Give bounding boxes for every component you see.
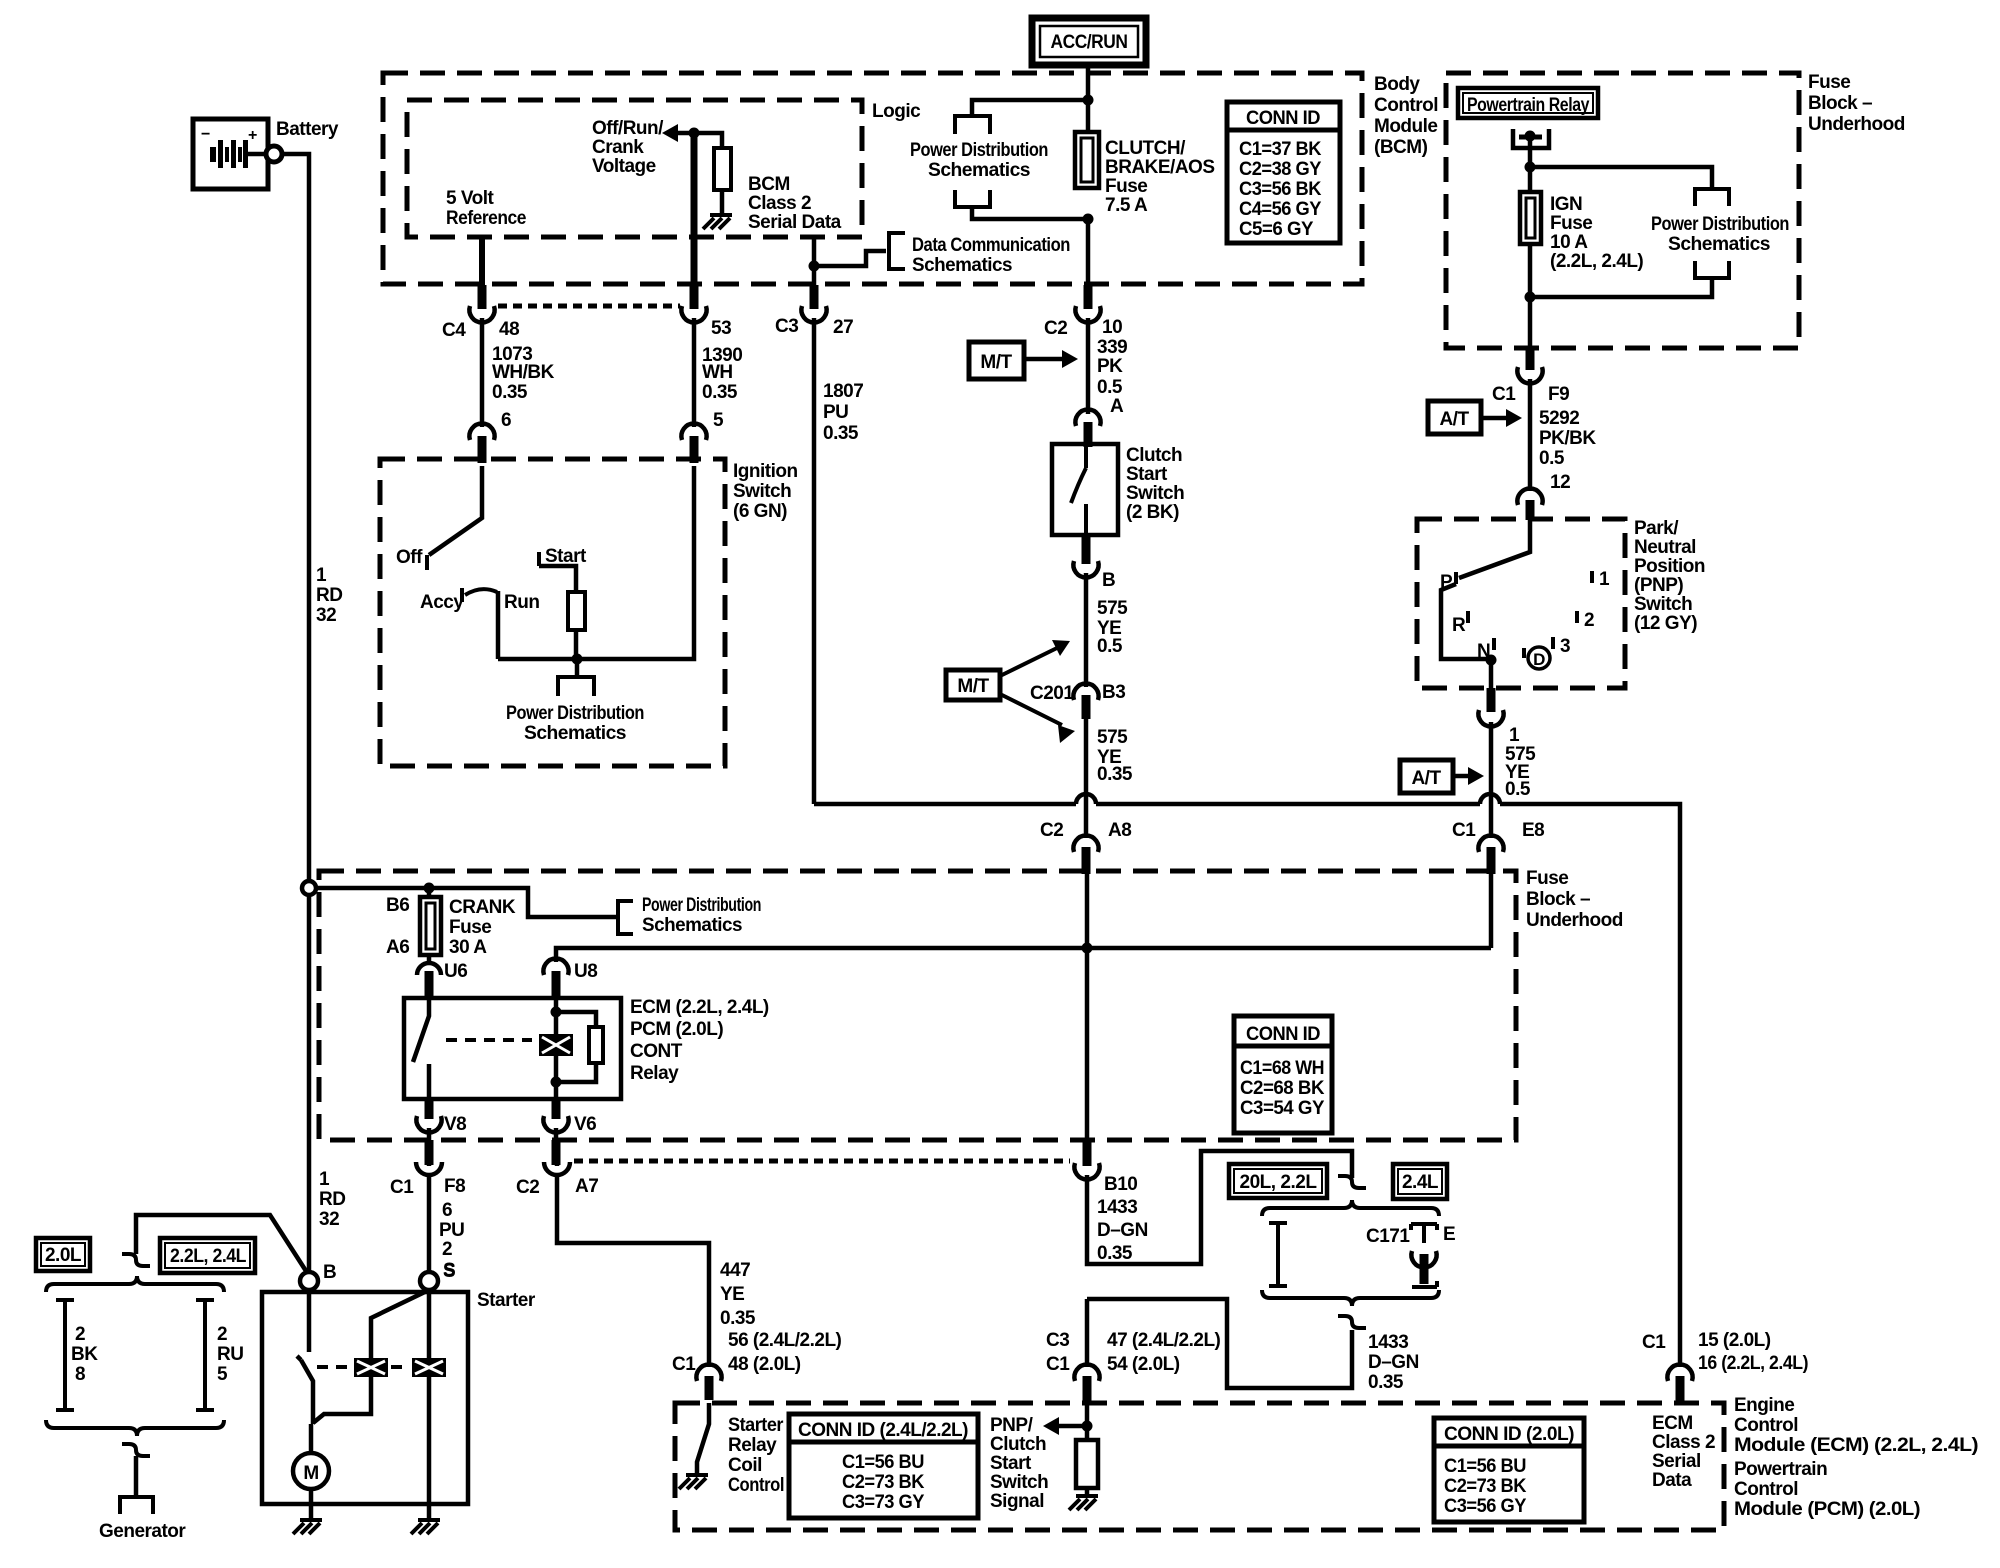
wire to PDS ref (IGN) — [1530, 167, 1712, 189]
connector C4 cavity 48 — [469, 306, 494, 322]
svg-text:D–GN: D–GN — [1368, 1352, 1419, 1373]
connector 12 (PNP) — [1517, 489, 1542, 505]
svg-text:Park/: Park/ — [1634, 518, 1679, 539]
2.0L tag box — [36, 1238, 90, 1271]
svg-text:PK: PK — [1097, 356, 1123, 377]
relay contact (powertrain) — [1513, 129, 1549, 148]
svg-text:Power Distribution: Power Distribution — [1651, 214, 1789, 235]
switch relay contact — [413, 998, 429, 1099]
svg-text:Control: Control — [1734, 1479, 1798, 1500]
svg-text:C1: C1 — [672, 1354, 696, 1375]
connector C3 cavity 27 — [810, 285, 819, 309]
svg-text:Clutch: Clutch — [1126, 445, 1182, 466]
svg-text:C3=73 GY: C3=73 GY — [842, 1492, 925, 1513]
svg-text:YE: YE — [720, 1284, 744, 1305]
svg-text:R: R — [1452, 615, 1466, 636]
svg-text:C1: C1 — [1642, 1332, 1666, 1353]
relay box ECM/PCM CONT — [404, 998, 621, 1099]
svg-text:PNP/: PNP/ — [990, 1415, 1034, 1436]
wire IGN fuse down — [1528, 244, 1533, 348]
connector C1 cavity F8 — [427, 1128, 432, 1166]
pin 1 — [1590, 571, 1594, 583]
svg-text:B6: B6 — [386, 895, 409, 916]
svg-text:CONT: CONT — [630, 1041, 683, 1062]
svg-text:Logic: Logic — [872, 101, 921, 122]
wire 1073 WH/BK 0.35 — [480, 318, 485, 427]
wire C171 return — [1087, 1299, 1352, 1388]
wire 1433 D-GN 0.35 to C171 — [1087, 1151, 1352, 1264]
svg-text:Signal: Signal — [990, 1491, 1044, 1512]
svg-text:CLUTCH/: CLUTCH/ — [1105, 138, 1186, 159]
contact Off — [425, 555, 429, 570]
contact P — [1454, 572, 1458, 584]
wire crank feed to fuse — [316, 888, 616, 917]
svg-text:Module (ECM) (2.2L, 2.4L): Module (ECM) (2.2L, 2.4L) — [1734, 1435, 1978, 1456]
svg-text:Crank: Crank — [592, 137, 644, 158]
connector U8 — [543, 959, 568, 975]
switch starter relay coil control — [697, 1403, 709, 1475]
svg-text:Body: Body — [1374, 74, 1420, 95]
fuse block underhood dashed box (middle) — [319, 871, 1516, 1140]
svg-text:Relay: Relay — [630, 1063, 679, 1084]
svg-text:C1: C1 — [1452, 820, 1476, 841]
switch clutch blade — [1071, 444, 1086, 535]
brace top C171 — [1262, 1200, 1439, 1216]
svg-text:2.2L, 2.4L: 2.2L, 2.4L — [170, 1246, 247, 1267]
svg-text:C5=6 GY: C5=6 GY — [1239, 219, 1314, 240]
svg-text:ACC/RUN: ACC/RUN — [1051, 32, 1128, 53]
svg-text:C2: C2 — [516, 1177, 539, 1198]
hop over PNP wire — [1480, 794, 1500, 804]
connector B (clutch out) — [1082, 535, 1091, 564]
svg-text:30 A: 30 A — [449, 937, 487, 958]
svg-text:(2 BK): (2 BK) — [1126, 502, 1179, 523]
node Off/Run/Crank Voltage arrow — [677, 131, 694, 136]
wire 5V ref to C4 — [479, 237, 485, 285]
inline connector squiggle (generator bottom) — [122, 1444, 150, 1456]
pin 3 — [1551, 637, 1555, 649]
svg-text:1: 1 — [1599, 569, 1610, 590]
wire PDS return to IGN fuse bottom — [1530, 278, 1712, 297]
svg-text:PK/BK: PK/BK — [1539, 428, 1596, 449]
resistor PNP signal — [1076, 1440, 1098, 1488]
Powertrain Relay tag box — [1458, 88, 1598, 118]
svg-text:D: D — [1533, 650, 1545, 669]
reference bracket Power Distribution Schematics (ignition) — [558, 677, 594, 696]
svg-text:Schematics: Schematics — [912, 255, 1012, 276]
svg-text:RU: RU — [217, 1344, 243, 1365]
svg-text:U6: U6 — [444, 961, 467, 982]
svg-text:C3=56 BK: C3=56 BK — [1239, 179, 1322, 200]
svg-text:447: 447 — [720, 1260, 750, 1281]
svg-text:1: 1 — [319, 1169, 330, 1190]
resistor ignition (start) — [568, 592, 585, 630]
svg-text:(PNP): (PNP) — [1634, 575, 1683, 596]
node junction at crank fuse top — [424, 883, 435, 894]
contact Accy — [460, 588, 464, 602]
svg-text:PU: PU — [823, 402, 848, 423]
svg-text:M/T: M/T — [980, 352, 1012, 373]
bottom ECM dashed box — [675, 1403, 1724, 1530]
wire 575 YE 0.35 — [1084, 719, 1089, 838]
svg-text:0.35: 0.35 — [702, 382, 738, 403]
splice S200 ring — [302, 881, 316, 895]
svg-text:Starter: Starter — [477, 1290, 536, 1311]
svg-text:B3: B3 — [1102, 682, 1125, 703]
ground starter relay coil — [679, 1475, 708, 1489]
svg-text:2.0L: 2.0L — [45, 1245, 82, 1266]
svg-text:Power Distribution: Power Distribution — [642, 895, 761, 916]
connector V6 — [552, 1099, 561, 1119]
wire 5292 PK/BK 0.5 — [1528, 379, 1533, 491]
CONN ID table (BCM) — [1227, 102, 1340, 243]
svg-text:C2: C2 — [1044, 318, 1067, 339]
svg-text:Data: Data — [1652, 1470, 1692, 1491]
svg-text:2: 2 — [442, 1239, 452, 1260]
svg-text:CONN ID (2.4L/2.2L): CONN ID (2.4L/2.2L) — [798, 1420, 968, 1441]
wire P to N out — [1441, 584, 1491, 688]
svg-text:Fuse: Fuse — [1105, 176, 1147, 197]
svg-text:Power Distribution: Power Distribution — [910, 140, 1048, 161]
pin 2 BK 8 — [56, 1300, 74, 1410]
svg-text:IGN: IGN — [1550, 194, 1582, 215]
svg-text:Position: Position — [1634, 556, 1705, 577]
svg-text:5: 5 — [217, 1364, 228, 1385]
20L, 2.2L tag box — [1229, 1164, 1327, 1198]
svg-text:1: 1 — [1509, 725, 1520, 746]
svg-text:E8: E8 — [1522, 820, 1544, 841]
svg-text:Schematics: Schematics — [524, 723, 626, 744]
svg-text:C1: C1 — [1492, 384, 1516, 405]
wire A8 to B10 through fuse block — [1085, 872, 1090, 1140]
2.2L, 2.4L tag box — [160, 1238, 255, 1273]
solenoid actuation dashed link — [317, 1365, 351, 1369]
connector U6 — [417, 963, 441, 975]
solenoid windings path — [313, 1290, 429, 1423]
svg-text:15 (2.0L): 15 (2.0L) — [1698, 1330, 1771, 1351]
svg-text:(12 GY): (12 GY) — [1634, 613, 1697, 634]
svg-text:10: 10 — [1102, 317, 1122, 338]
svg-text:2.4L: 2.4L — [1402, 1172, 1439, 1193]
svg-text:Starter: Starter — [728, 1415, 784, 1436]
svg-text:7.5 A: 7.5 A — [1105, 195, 1148, 216]
svg-text:Accy: Accy — [420, 592, 464, 613]
svg-text:Battery: Battery — [276, 119, 339, 140]
connector 6 (ignition switch) — [469, 424, 494, 440]
svg-text:WH/BK: WH/BK — [492, 362, 555, 383]
pin 2 — [1575, 611, 1579, 623]
wire serial data — [812, 239, 817, 285]
svg-text:V6: V6 — [574, 1114, 596, 1135]
svg-text:Data Communication: Data Communication — [912, 235, 1070, 256]
svg-text:Schematics: Schematics — [1668, 234, 1770, 255]
svg-text:27: 27 — [833, 317, 853, 338]
connector B10 — [1074, 1163, 1099, 1179]
svg-text:Start: Start — [1126, 464, 1168, 485]
svg-text:Schematics: Schematics — [928, 160, 1030, 181]
relay coil — [554, 998, 559, 1099]
svg-text:(2.2L, 2.4L): (2.2L, 2.4L) — [1550, 251, 1643, 272]
svg-text:Fuse: Fuse — [449, 917, 491, 938]
solenoid winding 1 — [354, 1358, 388, 1377]
svg-text:48: 48 — [499, 319, 519, 340]
svg-text:C1=37 BK: C1=37 BK — [1239, 139, 1322, 160]
svg-text:Voltage: Voltage — [592, 156, 656, 177]
resistor BCM pull-up — [694, 133, 722, 148]
wire to PDS ref (ignition) — [575, 659, 580, 676]
svg-text:PCM (2.0L): PCM (2.0L) — [630, 1019, 723, 1040]
svg-text:C1=56 BU: C1=56 BU — [1444, 1456, 1526, 1477]
svg-text:3: 3 — [1560, 636, 1570, 657]
svg-text:2: 2 — [75, 1324, 85, 1345]
svg-text:A7: A7 — [575, 1176, 598, 1197]
svg-text:5292: 5292 — [1539, 408, 1579, 429]
connector A (clutch switch) — [1075, 410, 1100, 426]
brace bottom generator — [46, 1420, 224, 1436]
bus wire 1807/ECM with hops — [814, 804, 1680, 1367]
connector 1 (PNP out) — [1487, 688, 1496, 712]
svg-text:Fuse: Fuse — [1808, 72, 1850, 93]
pin left C171 — [1269, 1223, 1287, 1286]
connector C2 cavity A7 — [556, 1128, 557, 1166]
svg-text:Switch: Switch — [990, 1472, 1048, 1493]
svg-text:Reference: Reference — [446, 208, 526, 229]
svg-text:A: A — [1110, 396, 1124, 417]
svg-text:2: 2 — [1584, 610, 1594, 631]
A/T tag 1 — [1428, 401, 1522, 434]
svg-text:Power Distribution: Power Distribution — [506, 703, 644, 724]
contact R — [1466, 611, 1470, 623]
svg-text:32: 32 — [316, 605, 336, 626]
dotted connector face (ECM row) — [574, 1159, 1070, 1164]
svg-text:C2=38 GY: C2=38 GY — [1239, 159, 1322, 180]
svg-text:0.35: 0.35 — [720, 1308, 756, 1329]
svg-text:1433: 1433 — [1368, 1332, 1408, 1353]
wire run/start junction to 5 — [498, 466, 694, 659]
ground BCM internal — [710, 213, 732, 217]
svg-text:Class 2: Class 2 — [748, 193, 811, 214]
brace bottom C171 — [1262, 1290, 1439, 1306]
svg-text:+: + — [248, 127, 257, 144]
wire 575 YE 0.5 (clutch) — [1084, 573, 1089, 687]
svg-text:B: B — [323, 1262, 336, 1283]
svg-text:Start: Start — [990, 1453, 1032, 1474]
svg-text:Neutral: Neutral — [1634, 537, 1696, 558]
wire 6 PU 2 to starter S — [427, 1174, 432, 1272]
contact N — [1492, 638, 1496, 650]
svg-text:Switch: Switch — [1634, 594, 1692, 615]
svg-text:Engine: Engine — [1734, 1395, 1794, 1416]
svg-text:PU: PU — [439, 1220, 464, 1241]
svg-text:Powertrain: Powertrain — [1734, 1459, 1827, 1480]
svg-text:S: S — [443, 1260, 455, 1281]
wire ACC/RUN down — [1086, 65, 1091, 132]
svg-text:Underhood: Underhood — [1526, 910, 1623, 931]
wire off/run/crank voltage to 53 — [689, 128, 700, 139]
inline connector squiggle (C171 bottom) — [1338, 1316, 1366, 1328]
switch arm ignition — [429, 466, 482, 555]
svg-text:RD: RD — [319, 1189, 345, 1210]
wire S winding to ground — [427, 1290, 432, 1520]
svg-text:(6 GN): (6 GN) — [733, 501, 787, 522]
connector C2 cavity 10 — [1084, 285, 1093, 309]
svg-text:B10: B10 — [1104, 1174, 1137, 1195]
svg-text:6: 6 — [501, 410, 511, 431]
brace top generator — [46, 1276, 224, 1292]
svg-text:10 A: 10 A — [1550, 232, 1588, 253]
svg-text:F9: F9 — [1548, 384, 1569, 405]
ACC/RUN feed box — [1032, 18, 1146, 65]
wire battery feed 1 RD 32 — [282, 154, 309, 1272]
svg-text:Clutch: Clutch — [990, 1434, 1046, 1455]
inline connector squiggle (C171 top) — [1338, 1176, 1366, 1188]
wire generator feed — [136, 1215, 306, 1271]
svg-text:0.35: 0.35 — [492, 382, 528, 403]
contact Run with arc — [465, 589, 497, 595]
svg-text:Relay: Relay — [728, 1435, 777, 1456]
BCM logic inner dashed box — [407, 100, 862, 237]
svg-text:BK: BK — [71, 1344, 98, 1365]
wire PNP signal down — [1085, 1403, 1090, 1440]
svg-text:48 (2.0L): 48 (2.0L) — [728, 1354, 801, 1375]
svg-text:V8: V8 — [444, 1114, 466, 1135]
svg-text:U8: U8 — [574, 961, 597, 982]
svg-text:Serial: Serial — [1652, 1451, 1701, 1472]
svg-text:C201: C201 — [1030, 683, 1074, 704]
connector E — [1411, 1224, 1437, 1243]
svg-text:ECM: ECM — [1652, 1413, 1693, 1434]
svg-text:5: 5 — [713, 410, 724, 431]
svg-text:0.5: 0.5 — [1539, 448, 1565, 469]
svg-text:Module (PCM) (2.0L): Module (PCM) (2.0L) — [1734, 1499, 1920, 1520]
clutch start switch box — [1052, 444, 1118, 535]
svg-text:0.35: 0.35 — [823, 423, 859, 444]
wire crank bus inside fuse block — [556, 872, 1491, 962]
svg-text:C1=56 BU: C1=56 BU — [842, 1452, 924, 1473]
svg-text:A6: A6 — [386, 937, 409, 958]
svg-text:C2=73 BK: C2=73 BK — [1444, 1476, 1527, 1497]
svg-text:Generator: Generator — [99, 1521, 186, 1542]
reference bracket Power Distribution Schematics (top) — [955, 116, 990, 134]
reference bracket Power Distribution Schematics (IGN fuse) — [1695, 189, 1729, 206]
svg-text:C171: C171 — [1366, 1226, 1410, 1247]
svg-text:Coil: Coil — [728, 1455, 762, 1476]
svg-text:Control: Control — [1374, 95, 1438, 116]
inline connector squiggle (generator top) — [122, 1254, 150, 1266]
svg-text:−: − — [201, 126, 210, 143]
2.4L tag box — [1393, 1164, 1447, 1199]
svg-text:8: 8 — [75, 1364, 85, 1385]
wire fuse to C2 — [1086, 219, 1091, 285]
svg-text:Underhood: Underhood — [1808, 114, 1905, 135]
svg-text:A8: A8 — [1108, 820, 1131, 841]
svg-text:A/T: A/T — [1411, 768, 1441, 789]
svg-text:CRANK: CRANK — [449, 897, 516, 918]
resistor relay parallel — [556, 1012, 596, 1082]
svg-text:Class 2: Class 2 — [1652, 1432, 1715, 1453]
reference bracket Power Distribution Schematics (crank) — [618, 901, 633, 934]
ground PNP signal — [1069, 1496, 1098, 1510]
svg-text:0.35: 0.35 — [1097, 1243, 1133, 1264]
svg-text:C2=73 BK: C2=73 BK — [842, 1472, 925, 1493]
svg-text:RD: RD — [316, 585, 342, 606]
svg-text:Block –: Block – — [1808, 93, 1872, 114]
svg-text:47 (2.4L/2.2L): 47 (2.4L/2.2L) — [1107, 1330, 1221, 1351]
svg-text:0.5: 0.5 — [1097, 636, 1123, 657]
relay actuation dashed link — [446, 1038, 532, 1042]
svg-text:54 (2.0L): 54 (2.0L) — [1107, 1354, 1180, 1375]
svg-text:1807: 1807 — [823, 381, 863, 402]
svg-text:ECM (2.2L, 2.4L): ECM (2.2L, 2.4L) — [630, 997, 769, 1018]
svg-text:32: 32 — [319, 1209, 339, 1230]
ignition switch dashed box — [380, 459, 725, 766]
svg-text:0.5: 0.5 — [1097, 377, 1123, 398]
ground starter solenoid — [411, 1520, 440, 1534]
svg-text:B: B — [1102, 570, 1115, 591]
PNP switch dashed box — [1417, 519, 1625, 688]
CONN ID table (2.0L) — [1434, 1418, 1584, 1522]
svg-text:M/T: M/T — [957, 676, 989, 697]
svg-text:339: 339 — [1097, 337, 1127, 358]
svg-text:0.35: 0.35 — [1097, 764, 1133, 785]
terminal B — [300, 1272, 318, 1290]
svg-text:(BCM): (BCM) — [1374, 137, 1428, 158]
svg-text:WH: WH — [702, 362, 733, 383]
svg-text:F8: F8 — [444, 1176, 465, 1197]
svg-text:M: M — [303, 1463, 318, 1484]
svg-text:Schematics: Schematics — [642, 915, 742, 936]
svg-text:Switch: Switch — [1126, 483, 1184, 504]
svg-text:Fuse: Fuse — [1526, 868, 1568, 889]
svg-text:A/T: A/T — [1439, 409, 1469, 430]
motor M — [309, 1424, 314, 1453]
pin 2 RU 5 — [196, 1300, 214, 1410]
wire 1390 WH 0.35 — [692, 318, 697, 427]
svg-text:56 (2.4L/2.2L): 56 (2.4L/2.2L) — [728, 1330, 842, 1351]
terminal S — [420, 1272, 438, 1290]
svg-text:C3: C3 — [775, 316, 798, 337]
svg-text:Off: Off — [396, 547, 423, 568]
wire to PDS reference (fuse top) — [972, 100, 1088, 114]
svg-text:5 Volt: 5 Volt — [446, 188, 494, 209]
svg-text:C4: C4 — [442, 320, 466, 341]
CONN ID table (fuse block) — [1234, 1016, 1332, 1133]
svg-text:20L, 2.2L: 20L, 2.2L — [1240, 1172, 1318, 1193]
svg-text:0.35: 0.35 — [1368, 1372, 1404, 1393]
svg-text:C1: C1 — [1046, 1354, 1070, 1375]
svg-text:Serial Data: Serial Data — [748, 212, 842, 233]
svg-text:16 (2.2L, 2.4L): 16 (2.2L, 2.4L) — [1698, 1353, 1808, 1374]
reference bracket Data Communication Schematics — [889, 233, 905, 269]
svg-text:D–GN: D–GN — [1097, 1220, 1148, 1241]
switch arm PNP — [1459, 519, 1530, 578]
wire 339 PK 0.5 — [1086, 318, 1091, 414]
svg-text:Module: Module — [1374, 116, 1438, 137]
svg-text:0.5: 0.5 — [1505, 779, 1531, 800]
BCM outer dashed box — [383, 73, 1362, 284]
svg-text:C2: C2 — [1040, 820, 1063, 841]
solenoid winding 2 — [412, 1358, 446, 1377]
svg-text:1: 1 — [316, 565, 327, 586]
svg-text:2: 2 — [217, 1324, 227, 1345]
reference bracket Generator — [120, 1497, 153, 1514]
svg-text:C3=56 GY: C3=56 GY — [1444, 1496, 1527, 1517]
wire generator stub — [134, 1456, 139, 1497]
svg-text:C1=68 WH: C1=68 WH — [1240, 1058, 1324, 1079]
svg-text:CONN ID (2.0L): CONN ID (2.0L) — [1444, 1424, 1574, 1445]
svg-text:C2=68 BK: C2=68 BK — [1240, 1078, 1325, 1099]
battery B+ — [193, 119, 339, 189]
